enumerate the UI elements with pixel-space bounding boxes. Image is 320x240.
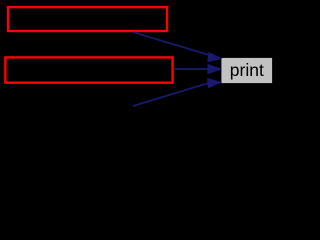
svg-text:print: print	[230, 60, 264, 80]
